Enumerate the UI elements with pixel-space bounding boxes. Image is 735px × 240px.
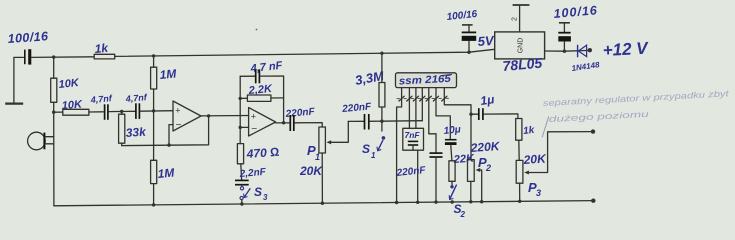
svg-text:7nF: 7nF [405, 130, 421, 140]
svg-text:−: − [176, 120, 182, 131]
svg-text:+: + [175, 105, 180, 115]
pencil arrow stroke [542, 116, 549, 137]
capacitor 100/16 at 5V [446, 9, 478, 52]
capacitor 100/16 at 12V [553, 3, 598, 51]
wire top rail left segment [32, 56, 94, 59]
node rail/P1 [321, 202, 324, 205]
node rail/P3 [518, 200, 521, 203]
wire signal to op-amp1 [140, 110, 173, 113]
node rail/P2 [469, 200, 472, 203]
capacitor 7nF in box [403, 128, 424, 150]
svg-text:1k: 1k [523, 125, 536, 137]
svg-text:−: − [251, 124, 257, 135]
svg-text:S: S [362, 142, 370, 156]
node rail/P2 wiper [480, 200, 483, 203]
wire pin4 to input line [421, 99, 423, 121]
svg-text:3: 3 [263, 193, 268, 202]
capacitor 220nF output coupling [284, 106, 316, 131]
svg-text:+12 V: +12 V [602, 39, 649, 60]
node output terminal [591, 129, 595, 133]
regulator 78L05 [495, 32, 545, 74]
resistor 470 ohm [237, 144, 279, 180]
pin 2 ground lead of regulator [512, 5, 530, 32]
node rail/S3 [240, 202, 243, 205]
node rail top 3,3M [380, 52, 383, 55]
wire mic drop to ground rail [53, 112, 55, 206]
svg-text:3: 3 [536, 188, 541, 198]
node 1M junction [152, 109, 155, 112]
capacitor 10u electrolytic [443, 124, 461, 161]
wire from cap to ground drop [14, 57, 24, 103]
wire between coupling caps [109, 110, 135, 112]
svg-text:1: 1 [371, 151, 376, 160]
resistor 1k (supply filter) [94, 41, 115, 59]
resistor 1M lower [151, 111, 176, 205]
wire IC input line [370, 120, 423, 123]
node 2,2K left [239, 97, 242, 100]
wire pin5 jog [429, 99, 436, 134]
node feedback junction [167, 143, 170, 146]
svg-text:33k: 33k [125, 125, 147, 140]
svg-text:1M: 1M [159, 67, 178, 82]
node rail/pin1 [395, 201, 398, 204]
capacitor 220nF second coupling [341, 101, 373, 129]
switch S2 [449, 185, 465, 219]
node +12V terminal [588, 48, 592, 52]
capacitor 4,7nF first coupling [89, 93, 113, 120]
wire pin3 down [415, 99, 417, 129]
wire box to rail [417, 150, 419, 202]
wire feedback left vertical [239, 76, 241, 143]
ground bar [5, 102, 23, 104]
wire op-amp1 inverting input jog [169, 125, 173, 146]
svg-text:5V: 5V [477, 33, 495, 49]
node input junction [52, 111, 55, 114]
capacitor 2,2nF [235, 167, 267, 187]
svg-text:20K: 20K [299, 164, 323, 178]
node 3,3M junction [380, 120, 383, 123]
resistor 22K [449, 153, 475, 186]
svg-text:2: 2 [485, 163, 491, 173]
resistor 10K vertical [51, 57, 81, 112]
resistor 1M upper [151, 56, 178, 111]
op-amp U2 [249, 108, 276, 137]
svg-text:2: 2 [512, 17, 519, 21]
svg-text:470 Ω: 470 Ω [245, 145, 279, 161]
potentiometer P2 220K [468, 139, 502, 202]
node op-amp1 output [207, 114, 210, 117]
wire feedback line op-amp1 [122, 116, 209, 146]
node 5V rail/cap [467, 51, 470, 54]
node rail/box [416, 201, 419, 204]
wire pin2 down [408, 99, 410, 129]
diode 1N4148 [571, 45, 601, 73]
svg-text:+: + [251, 111, 256, 121]
resistor 1K [516, 119, 536, 161]
resistor 2,2K feedback [240, 83, 283, 101]
IC pins with tick marks [397, 88, 449, 101]
node 33k junction [120, 110, 123, 113]
node rail/10K junction [52, 55, 55, 58]
capacitor 4,7nF second coupling [124, 92, 148, 119]
capacitor 4,7nF feedback [240, 60, 283, 123]
potentiometer P1 20K [299, 121, 348, 203]
svg-text:1M: 1M [157, 166, 176, 181]
node inverting input [239, 126, 242, 129]
switch S1 [362, 121, 385, 160]
capacitor 100/16 input (top-left electrolytic) [7, 29, 49, 64]
svg-text:4,7nf: 4,7nf [89, 93, 113, 105]
svg-text:2: 2 [460, 210, 466, 219]
IC U3 SSM2165 [396, 73, 457, 88]
resistor 33k [119, 111, 148, 145]
svg-text:10K: 10K [61, 99, 83, 112]
ink speck [256, 29, 258, 31]
op-amp U1 [173, 101, 201, 131]
svg-text:10μ: 10μ [443, 124, 461, 137]
svg-text:1μ: 1μ [479, 92, 495, 108]
wire cap to P1 [295, 123, 323, 127]
svg-text:20K: 20K [522, 151, 547, 167]
svg-text:100/16: 100/16 [7, 29, 49, 46]
node rail/1M top junction [152, 54, 155, 57]
wire pin6 jog [436, 99, 450, 139]
wire op-amp1 output to op-amp2 [201, 115, 249, 117]
ground rail (bottom) [54, 201, 594, 206]
node rail end terminal [591, 199, 595, 203]
svg-text:S: S [254, 185, 262, 199]
node 1u branch [469, 113, 472, 116]
microphone capsule [28, 132, 54, 150]
wire top rail main [115, 49, 495, 56]
wire pin7 jog to P2 [444, 99, 471, 160]
svg-text:220K: 220K [469, 139, 501, 155]
resistor 3,3M [354, 53, 386, 121]
node rail/1M [152, 203, 155, 206]
wire regulator output right [545, 49, 590, 52]
wire op-amp2 inverting input [240, 126, 248, 128]
wire op-amp2 output [276, 122, 290, 124]
potentiometer P3 20K [516, 132, 591, 202]
svg-text:GND: GND [518, 38, 525, 54]
svg-text:4,7nf: 4,7nf [124, 92, 148, 104]
node cap/diode junction [563, 50, 566, 53]
capacitor 1u output [471, 92, 518, 120]
node rail/S2 [451, 200, 454, 203]
switch S3 [240, 185, 268, 204]
wire pin1 to ground rail [397, 99, 402, 203]
svg-text:10K: 10K [58, 77, 80, 91]
node feedback/output junction [282, 121, 285, 124]
capacitor 220nF at IC [395, 134, 442, 202]
resistor 10K horizontal [54, 99, 103, 116]
node rail/cap [434, 200, 437, 203]
